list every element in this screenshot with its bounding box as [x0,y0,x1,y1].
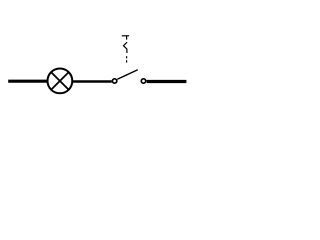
switch S1 right terminal node [141,79,145,83]
lamp E1 cross diagonal 1 [51,72,68,89]
switch S1 movable blade contact [117,70,137,80]
actuator manual pull T-bar of S1 [122,35,129,37]
wire W1 left supply segment [8,80,47,83]
actuator stem dash [126,36,128,40]
mechanical link dash 2 [126,60,128,62]
switch S1 left terminal node [112,79,116,83]
mechanical link dash 1 [126,56,128,58]
lamp E1 body circle [48,69,73,94]
lamp E1 cross diagonal 2 [51,72,68,89]
wire W3 right segment [147,80,187,83]
wire W2 lamp to switch [73,80,112,82]
latching device chevron on mechanical link [124,42,128,53]
